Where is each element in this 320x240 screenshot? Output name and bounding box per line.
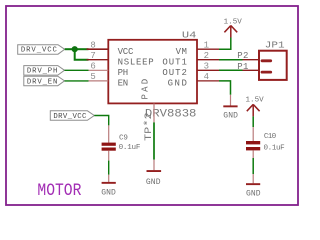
pin 8 VCC (87, 48, 109, 50)
connector JP1 pin P1 lead (243, 69, 260, 71)
svg-text:1: 1 (204, 40, 209, 50)
ground (TP) (153, 160, 155, 171)
svg-text:DRV_VCC: DRV_VCC (53, 113, 87, 121)
svg-text:GND: GND (223, 111, 238, 120)
pin 2 OUT1 (197, 59, 219, 61)
wire DRV_VCC flag to junction (65, 48, 75, 50)
svg-text:GND: GND (146, 178, 161, 187)
svg-text:VM: VM (176, 47, 187, 57)
supply 1.5V (C10) (247, 104, 260, 116)
svg-text:3: 3 (204, 62, 209, 72)
pin 5 EN (89, 80, 109, 82)
IC U4 body (108, 40, 197, 104)
net label DRV_EN (24, 76, 65, 86)
svg-text:U4: U4 (182, 30, 197, 41)
svg-text:6: 6 (90, 62, 95, 72)
wire DRV_EN to pin 5 (65, 80, 89, 82)
wire PAD pin to TP ground (153, 122, 155, 159)
svg-text:C9: C9 (119, 135, 128, 143)
svg-text:7: 7 (90, 51, 95, 61)
svg-text:OUT2: OUT2 (162, 68, 187, 78)
svg-text:NSLEEP: NSLEEP (118, 57, 154, 67)
svg-text:P2: P2 (237, 51, 248, 61)
connector JP1 pin P2 lead (243, 59, 260, 61)
svg-text:1.5V: 1.5V (224, 18, 243, 26)
wire pin 2 to JP1 P2 (219, 59, 243, 61)
svg-text:GND: GND (168, 79, 187, 89)
ground (pin 4) (230, 95, 232, 106)
svg-text:PAD: PAD (141, 79, 151, 100)
svg-text:4: 4 (204, 72, 209, 82)
svg-text:C10: C10 (264, 133, 277, 141)
pin 3 OUT2 (197, 69, 219, 71)
svg-text:8: 8 (90, 40, 95, 50)
capacitor C10 (252, 127, 254, 141)
wire pin 4 to GND (219, 81, 231, 95)
svg-text:GND: GND (101, 189, 116, 198)
wire pin1 to 1.5V supply (219, 38, 231, 50)
capacitor C9 (108, 125, 110, 142)
svg-text:JP1: JP1 (265, 40, 285, 51)
svg-text:EN: EN (118, 79, 129, 89)
svg-text:5: 5 (90, 72, 95, 82)
pin 4 GND (197, 80, 219, 82)
wire 1.5V to C10 (252, 116, 254, 127)
svg-text:2: 2 (204, 51, 209, 61)
svg-text:GND: GND (246, 190, 261, 199)
wire junction down to NSLEEP row (75, 49, 89, 60)
svg-text:1.5V: 1.5V (246, 97, 265, 105)
svg-text:DRV_EN: DRV_EN (27, 78, 58, 86)
wire DRV_VCC to C9 (94, 116, 108, 126)
wire pin 3 to JP1 P1 (219, 69, 243, 71)
svg-text:DRV_PH: DRV_PH (27, 68, 58, 76)
svg-text:MOTOR: MOTOR (37, 180, 81, 201)
svg-text:DRV_VCC: DRV_VCC (21, 47, 58, 55)
pin 6 PH (89, 69, 109, 71)
svg-text:PH: PH (118, 68, 129, 78)
wire C10 to GND (252, 158, 254, 174)
JP1 pin stub P2 (262, 59, 271, 62)
wire C9 to GND (108, 161, 110, 175)
junction dot (72, 46, 78, 52)
net label DRV_VCC (to pin 8) (18, 45, 65, 55)
svg-text:TP*2: TP*2 (144, 112, 155, 141)
svg-text:OUT1: OUT1 (162, 57, 187, 67)
svg-text:0.1uF: 0.1uF (264, 144, 286, 152)
wire junction to pin 8 (75, 48, 89, 50)
pin 1 VM (197, 48, 219, 50)
ground (C10) (252, 174, 254, 183)
svg-text:VCC: VCC (118, 47, 134, 57)
wire DRV_PH to pin 6 (65, 69, 89, 71)
svg-text:P1: P1 (237, 62, 248, 72)
JP1 pin stub P1 (262, 71, 271, 74)
net label DRV_PH (24, 66, 65, 76)
supply 1.5V (top) (224, 26, 237, 38)
net label DRV_VCC (to C9) (50, 111, 94, 121)
svg-text:0.1uF: 0.1uF (119, 144, 141, 152)
connector JP1 box (259, 51, 287, 80)
ground (C9) (108, 175, 110, 182)
pin 7 NSLEEP (87, 59, 109, 61)
pin PAD line from IC bottom (153, 103, 155, 122)
